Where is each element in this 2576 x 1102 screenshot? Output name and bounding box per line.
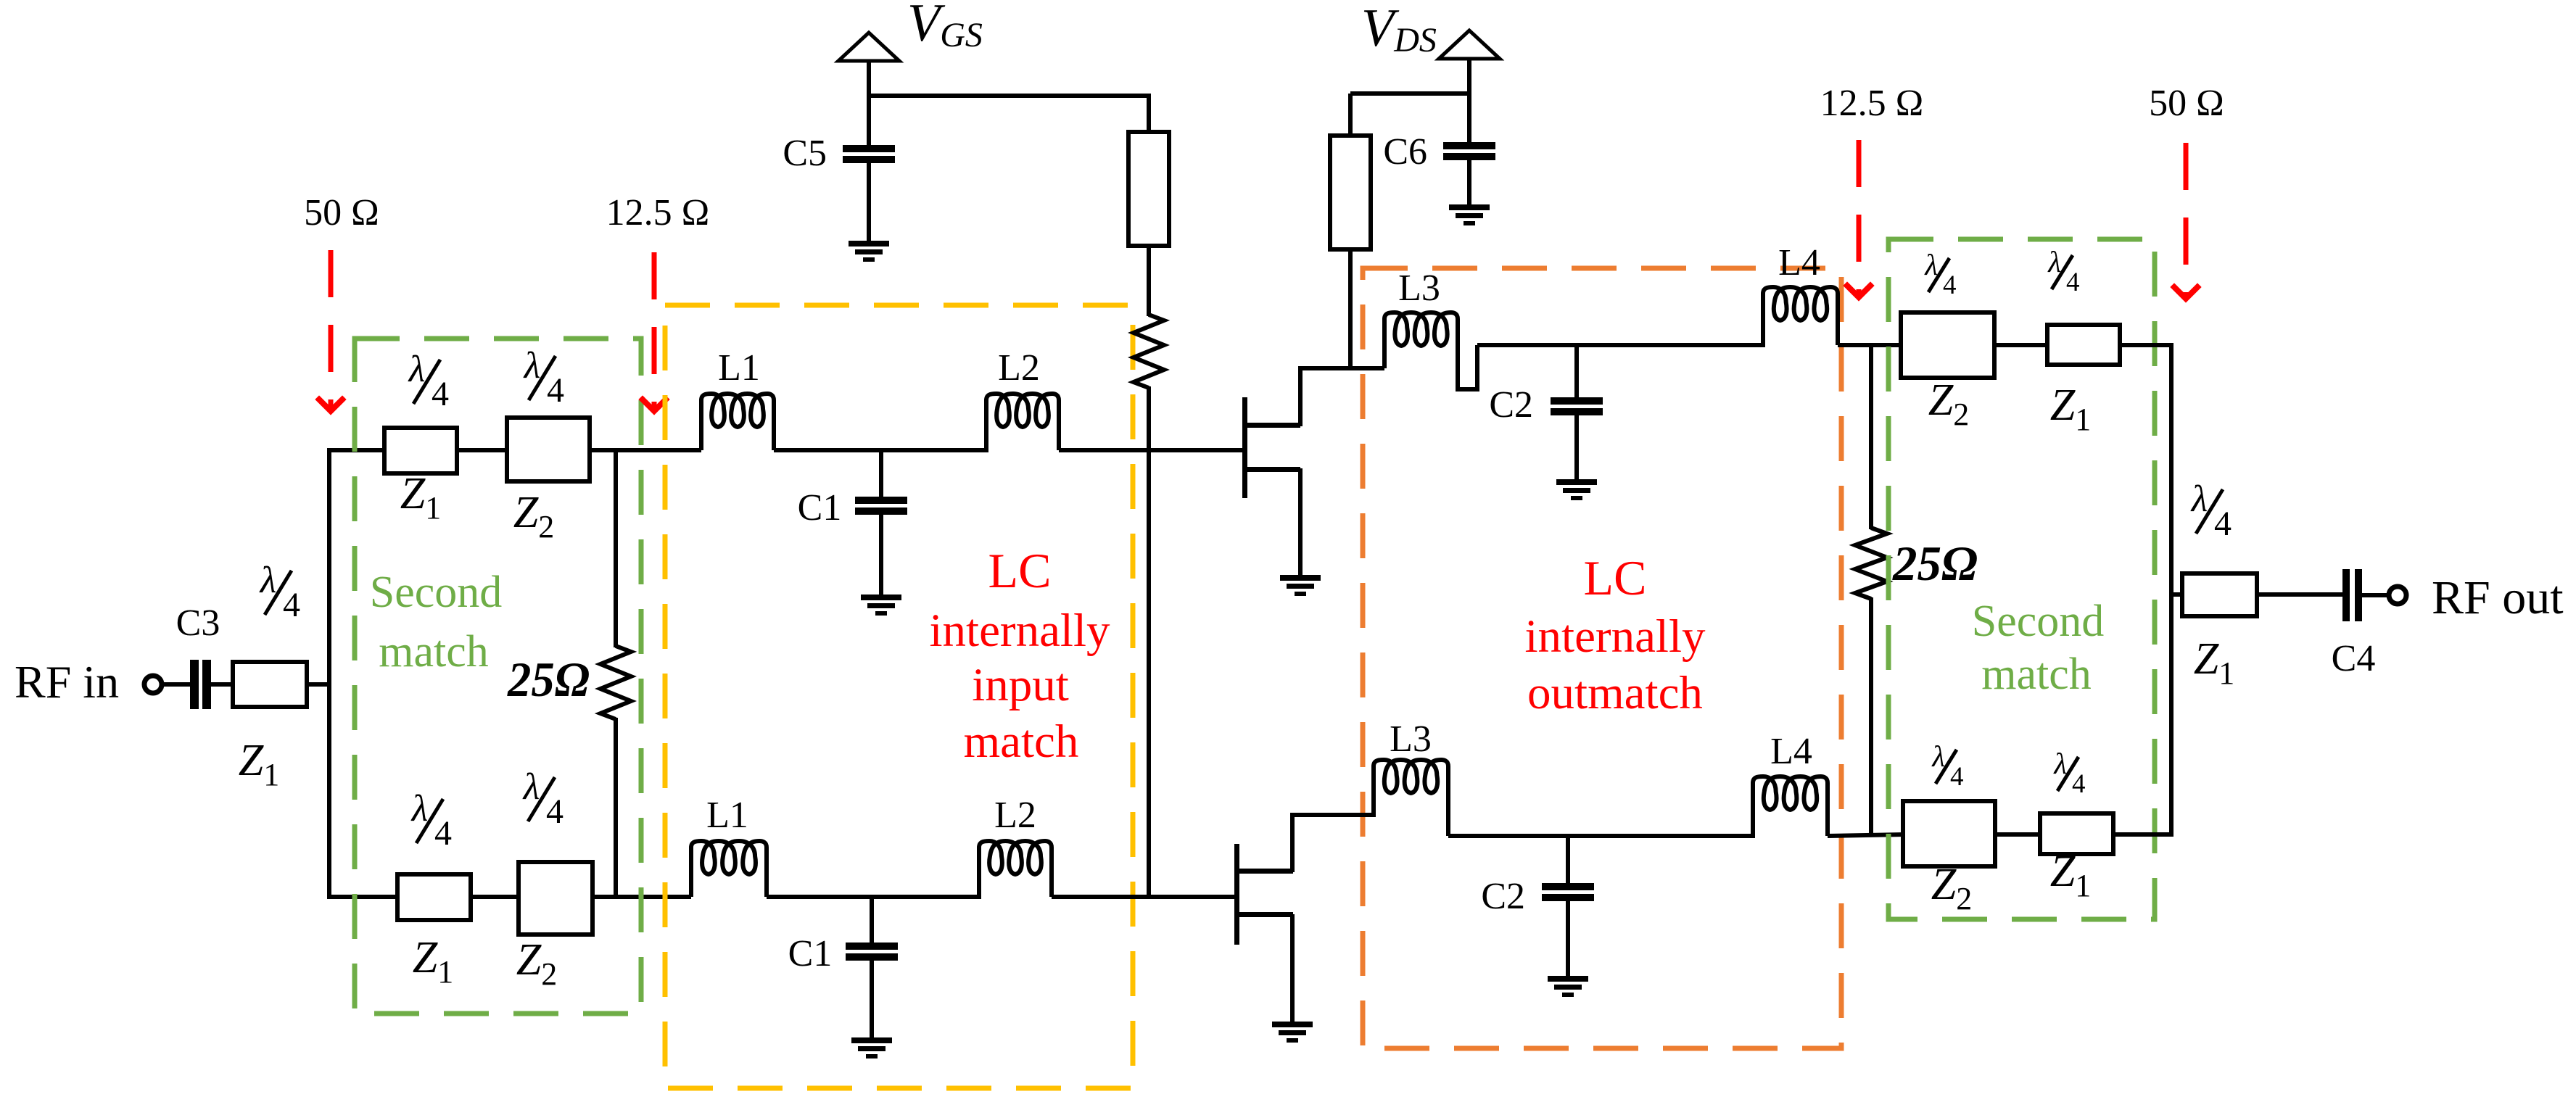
svg-text:λ: λ [1931, 739, 1945, 773]
wire 25-ohm right top lead [1869, 345, 1873, 529]
capacitor C1 bottom [846, 942, 898, 950]
transistor Q1 gate bar [1242, 397, 1247, 498]
inductor L1 bottom [691, 841, 767, 897]
transmission line Z1 bottom-right [2040, 813, 2113, 854]
svg-text:λ: λ [2047, 245, 2061, 278]
green dashed box Second match left [355, 339, 641, 1014]
inductor L4 bottom [1753, 776, 1828, 836]
inductor L2 bottom [979, 841, 1052, 897]
capacitor C4 [2342, 569, 2350, 621]
transmission line Z2 bottom-left [519, 862, 593, 935]
svg-text:4: 4 [283, 586, 300, 624]
inductor L3 top [1384, 312, 1458, 389]
wire Q2 drain to L3 bottom [1290, 813, 1376, 817]
transistor Q2 source bar [1237, 912, 1293, 917]
svg-text:RF in: RF in [15, 656, 119, 708]
svg-text:λ: λ [522, 766, 540, 808]
wire L2 top to gate Q1 [1059, 448, 1244, 452]
wire down to gate feed line [1147, 96, 1151, 133]
wire C1 bottom to ground [870, 961, 874, 1039]
svg-text:internally: internally [1524, 610, 1706, 663]
svg-text:12.5 Ω: 12.5 Ω [1820, 83, 1924, 124]
svg-text:C1: C1 [798, 487, 842, 529]
wire L1 to L2 top [774, 448, 988, 452]
svg-text:λ: λ [523, 345, 541, 386]
wire VGS horizontal [869, 94, 1151, 98]
wire C2 bottom to ground [1566, 901, 1570, 977]
svg-text:L4: L4 [1778, 242, 1820, 283]
wire top branch splitter to Z1 [329, 448, 387, 452]
transistor Q1 drain bar [1244, 423, 1300, 428]
wire C3 to Z1 input line [210, 682, 234, 687]
svg-text:Second: Second [370, 568, 503, 617]
wire Q1 drain up [1298, 368, 1303, 426]
transistor Q2 drain bar [1237, 869, 1293, 874]
svg-text:4: 4 [546, 792, 563, 831]
capacitor C2 top [1551, 397, 1603, 405]
svg-text:C2: C2 [1489, 384, 1533, 426]
transmission line Z1 output [2182, 573, 2257, 616]
wire gate bias vertical [1147, 386, 1151, 899]
svg-text:L2: L2 [994, 795, 1036, 836]
wire Z1 output to C4 [2257, 592, 2344, 597]
transmission line Z2 top-right [1901, 312, 1994, 378]
capacitor C1 top [855, 497, 907, 504]
svg-text:λ: λ [408, 349, 426, 390]
red arrow 12.5 Ohm right [1857, 140, 1862, 297]
svg-text:λ: λ [259, 560, 277, 601]
inductor L3 bottom [1374, 760, 1448, 836]
svg-text:L4: L4 [1770, 731, 1812, 772]
svg-text:4: 4 [2214, 505, 2232, 543]
wire Q2 source down [1290, 914, 1295, 1023]
svg-text:L3: L3 [1390, 718, 1432, 760]
svg-text:25Ω: 25Ω [507, 652, 590, 707]
svg-text:L2: L2 [998, 347, 1040, 389]
transmission line Z1 input [233, 662, 307, 707]
transmission line Z2 bottom-right [1903, 801, 1995, 866]
svg-text:RF out: RF out [2432, 571, 2564, 624]
wire Z1 input to splitter [307, 682, 331, 687]
power VDS triangle [1439, 30, 1500, 59]
wire L4 bottom to Z2 [1828, 834, 1905, 836]
svg-text:C2: C2 [1481, 876, 1525, 917]
svg-text:LC: LC [988, 543, 1052, 598]
svg-text:4: 4 [2066, 268, 2080, 297]
svg-text:λ: λ [2190, 478, 2208, 520]
wire C2 top to ground [1574, 415, 1579, 481]
orange dashed box LC outmatch [1363, 268, 1841, 1048]
wire Q1 source down [1298, 468, 1303, 576]
ground C1 bottom [851, 1037, 892, 1043]
ground C2 top [1556, 479, 1597, 485]
svg-text:L3: L3 [1398, 268, 1440, 309]
svg-text:Second: Second [1972, 597, 2105, 646]
wire down to drain feed line [1348, 94, 1353, 137]
svg-text:4: 4 [1950, 762, 1964, 792]
svg-text:λ: λ [1924, 248, 1938, 281]
wire L3 to L4 top [1477, 343, 1765, 347]
wire C5 to ground [867, 163, 871, 242]
wire Q1 drain to L3 [1298, 366, 1384, 370]
svg-text:12.5 Ω: 12.5 Ω [606, 192, 710, 233]
ground C2 bottom [1548, 976, 1588, 982]
svg-text:4: 4 [1943, 270, 1957, 300]
red arrow 50 Ohm left [329, 250, 334, 411]
transmission line Z1 top-right [2047, 325, 2120, 365]
transistor Q2 gate bar [1234, 844, 1239, 945]
splitter vertical wire [327, 448, 331, 899]
svg-text:C5: C5 [783, 133, 827, 174]
svg-text:internally: internally [929, 605, 1110, 657]
wire L3 to L4 bottom [1448, 834, 1755, 838]
svg-text:outmatch: outmatch [1527, 667, 1703, 719]
capacitor C1 bottom lead [870, 897, 874, 944]
wire Z1 top-right to combiner [2120, 343, 2173, 347]
svg-text:L1: L1 [718, 347, 760, 389]
resistor 25 Ohm left [600, 646, 631, 719]
svg-text:4: 4 [2072, 769, 2086, 799]
wire gate feed line to resistor [1147, 246, 1151, 316]
svg-text:match: match [379, 627, 489, 676]
capacitor C3 [190, 660, 199, 709]
svg-text:C1: C1 [788, 933, 833, 974]
inductor L4 top [1763, 287, 1838, 345]
ground C5 [849, 241, 889, 246]
svg-text:4: 4 [434, 814, 452, 853]
svg-text:4: 4 [432, 375, 449, 413]
svg-text:L1: L1 [706, 795, 748, 836]
svg-text:C4: C4 [2332, 638, 2376, 679]
wire Z1 to Z2 bottom-left [468, 895, 521, 899]
wire Z2 to Z1 bottom-right [1995, 832, 2042, 837]
green dashed box Second match right [1888, 239, 2155, 919]
svg-text:4: 4 [547, 371, 564, 410]
svg-text:25Ω: 25Ω [1892, 536, 1978, 591]
transmission line Z2 top-left [507, 418, 590, 481]
svg-text:λ: λ [2053, 747, 2067, 780]
inductor L2 top [986, 394, 1059, 450]
capacitor C6 [1443, 142, 1495, 149]
power VGS triangle [838, 33, 899, 61]
wire Z2 to Z1 top-right [1994, 343, 2049, 347]
wire L3 top jog [1456, 345, 1477, 389]
wire C4 to RF out terminal [2362, 593, 2390, 597]
red arrow 50 Ohm right [2184, 143, 2189, 299]
capacitor C1 top lead [879, 450, 883, 498]
ground Q1 source [1280, 575, 1321, 581]
transmission line drain feed [1330, 136, 1371, 249]
capacitor C2 bottom [1542, 883, 1594, 890]
wire combiner to Z1 output [2171, 592, 2184, 597]
wire Z2 bottom-left to L1 junction [593, 895, 691, 899]
svg-text:λ: λ [410, 788, 429, 829]
wire Z1 bottom-right to combiner [2113, 832, 2171, 837]
wire 25-ohm right bottom lead [1869, 597, 1873, 834]
capacitor C2 top lead [1574, 345, 1579, 399]
wire C1 top to ground [879, 515, 883, 596]
svg-text:50 Ω: 50 Ω [2149, 83, 2224, 124]
capacitor C5 [843, 145, 895, 152]
wire VGS stem [867, 61, 871, 146]
svg-text:C6: C6 [1383, 131, 1427, 173]
transmission line Z1 top-left [384, 428, 457, 473]
transmission line Z1 bottom-left [397, 874, 471, 920]
wire 25-ohm resistor bottom lead [614, 718, 618, 897]
inductor L1 top [701, 394, 774, 450]
svg-text:match: match [964, 716, 1079, 768]
wire VDS stem [1467, 59, 1471, 144]
red arrow 12.5 Ohm left [652, 252, 657, 411]
svg-text:match: match [1981, 650, 2092, 699]
capacitor C2 bottom lead [1566, 836, 1570, 884]
wire Z1 to Z2 top-left [455, 448, 509, 452]
transistor Q1 source bar [1244, 467, 1300, 472]
RF out terminal [2389, 587, 2406, 604]
wire L2 bottom to gate Q2 [1052, 895, 1237, 899]
RF in terminal [144, 676, 162, 693]
wire bottom branch splitter to Z1 [329, 895, 400, 899]
wire drain feed to drain node [1348, 249, 1353, 370]
svg-text:input: input [972, 659, 1069, 711]
resistor gate bias [1134, 315, 1164, 388]
svg-text:C3: C3 [176, 602, 220, 644]
yellow dashed box LC input match [665, 305, 1133, 1088]
svg-text:50 Ω: 50 Ω [304, 192, 379, 233]
wire L1 to L2 bottom [767, 895, 981, 899]
wire Z2 top-left to L1 junction [590, 448, 701, 452]
ground Q2 source [1272, 1022, 1313, 1027]
ground C6 [1449, 204, 1490, 210]
wire C6 to ground [1467, 160, 1471, 206]
resistor 25 Ohm right [1855, 528, 1887, 599]
ground C1 top [861, 594, 901, 600]
wire L4 top to Z2 [1838, 343, 1903, 347]
wire RF in terminal to C3 [162, 682, 191, 687]
transmission line gate feed [1128, 132, 1169, 246]
combiner vertical wire [2169, 343, 2173, 837]
wire 25-ohm resistor top lead [614, 450, 618, 647]
wire VDS horizontal [1350, 91, 1469, 96]
svg-text:LC: LC [1584, 550, 1647, 605]
wire Q2 drain up [1290, 815, 1295, 872]
